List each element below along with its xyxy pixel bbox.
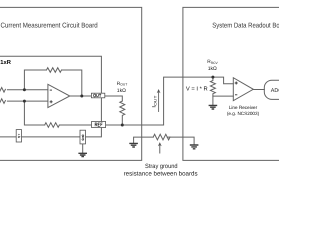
INA inner box outline	[0, 56, 101, 137]
stray ground wire left	[134, 137, 154, 143]
receiver minus sign	[235, 94, 237, 96]
stray ground resistor	[153, 134, 170, 140]
left board outline	[0, 7, 142, 160]
receiver output wire	[253, 89, 264, 91]
svg-text:Line Receiver: Line Receiver	[229, 105, 258, 110]
svg-text:Stray ground: Stray ground	[145, 163, 178, 170]
svg-text:ROUT: ROUT	[117, 81, 127, 87]
op-amp U1	[48, 84, 70, 107]
svg-text:RRCV: RRCV	[207, 59, 218, 65]
pin box OUT	[91, 93, 104, 98]
minus input resistor	[0, 88, 5, 93]
right board outline	[183, 7, 285, 160]
minus input wire	[7, 89, 48, 91]
plus input wire	[7, 100, 48, 102]
svg-text:ADC: ADC	[271, 88, 279, 94]
node plus junction	[23, 100, 26, 103]
op-amp output wire	[70, 95, 92, 97]
pin box V+	[16, 130, 21, 142]
GND pin wire to ground	[82, 144, 84, 153]
svg-text:V = I * R: V = I * R	[186, 86, 208, 92]
stray annotation arrow	[159, 145, 161, 154]
node minus junction	[23, 88, 26, 91]
ground symbol left board right	[129, 143, 138, 147]
ground leg wire from plus node	[24, 101, 91, 125]
feedback resistor	[47, 68, 62, 73]
op-amp minus sign	[50, 89, 52, 91]
node R_OUT bottom junction	[121, 124, 124, 127]
line receiver U2	[233, 78, 253, 101]
pin box REF	[92, 122, 106, 128]
ground symbol under R_RCV	[209, 105, 218, 109]
ground symbol right board	[190, 145, 199, 149]
plus input resistor	[0, 99, 5, 104]
pin box GND	[80, 130, 86, 144]
node R_RCV top junction	[211, 76, 214, 79]
node output junction	[80, 95, 83, 98]
I_OUT arrow	[158, 92, 160, 112]
REF wire to inter-board run	[106, 77, 213, 125]
wire node to receiver plus input	[213, 77, 233, 84]
receiver plus sign	[235, 82, 238, 85]
svg-text:resistance between boards: resistance between boards	[124, 170, 198, 177]
wire R_RCV bottom to minus input and ground	[213, 96, 233, 105]
ADC box	[264, 80, 290, 99]
junction dots	[23, 76, 215, 127]
svg-text:System Data Readout Board: System Data Readout Board	[212, 22, 279, 30]
svg-text:1kΩ: 1kΩ	[117, 88, 126, 94]
stray ground wire right	[167, 137, 194, 145]
ground leg resistor	[45, 123, 60, 128]
svg-text:1kΩ: 1kΩ	[208, 66, 217, 72]
wire OUT to R_OUT	[105, 96, 123, 101]
resistor R_OUT	[120, 101, 125, 125]
resistor R_RCV	[210, 77, 215, 96]
svg-text:0.1xR: 0.1xR	[0, 59, 12, 66]
svg-text:(e.g. NCS2003): (e.g. NCS2003)	[227, 111, 260, 116]
svg-text:Current Measurement Circuit Bo: Current Measurement Circuit Board	[1, 22, 98, 30]
feedback wire	[24, 70, 81, 96]
ground symbol under GND pin	[78, 153, 87, 156]
I_OUT arrowhead	[157, 89, 161, 93]
op-amp plus sign	[50, 100, 53, 103]
